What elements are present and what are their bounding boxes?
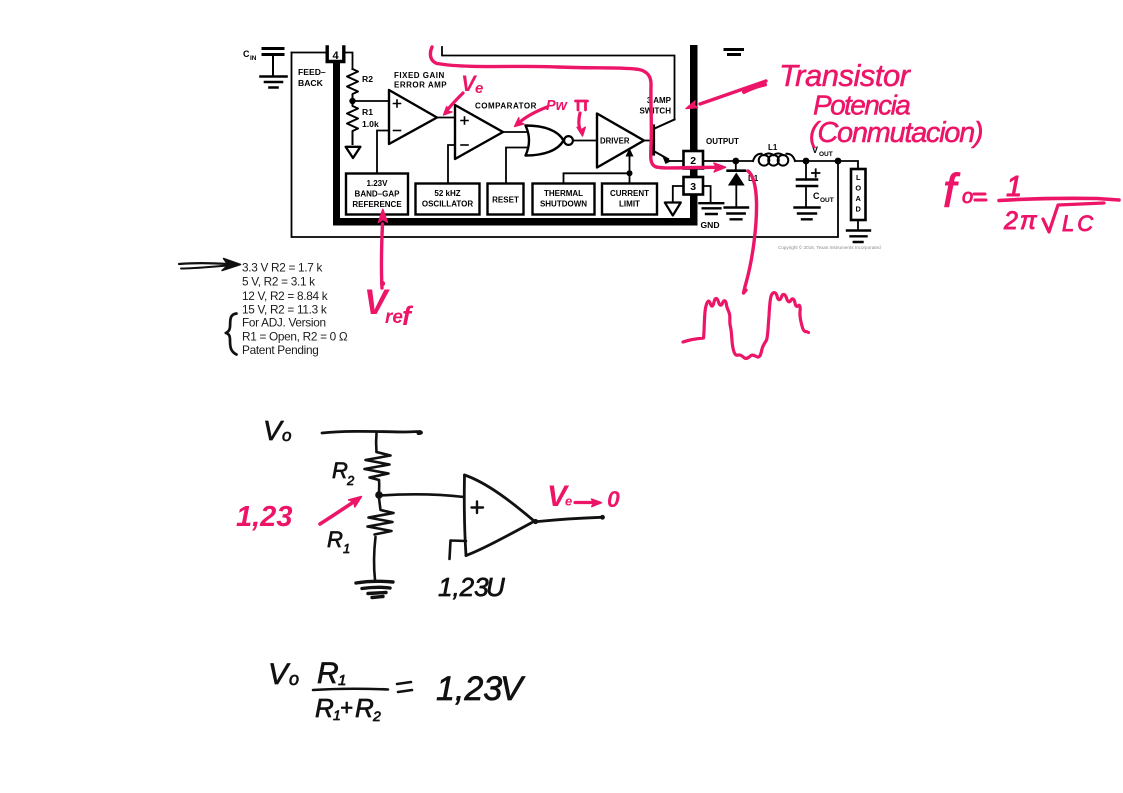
svg-text:BAND–GAP: BAND–GAP bbox=[355, 190, 401, 199]
svg-text:O: O bbox=[855, 184, 861, 193]
annotation PWM bbox=[515, 98, 588, 136]
annotation Ve -> 0 bbox=[547, 480, 620, 513]
equation: denominator R1+R2 bbox=[315, 693, 381, 724]
svg-text:e: e bbox=[475, 80, 483, 97]
svg-text:(Conmutacion): (Conmutacion) bbox=[809, 117, 982, 149]
svg-text:o: o bbox=[282, 426, 291, 445]
annotation arrow to 3.3V line bbox=[179, 259, 241, 271]
label VOUT bbox=[812, 145, 833, 158]
svg-text:Pw: Pw bbox=[546, 98, 569, 114]
hand circuit: op-amp triangle bbox=[464, 475, 538, 556]
junction dot (driver control) bbox=[627, 170, 633, 176]
svg-text:1,23: 1,23 bbox=[436, 670, 502, 708]
ground (input rail, partial) bbox=[725, 50, 743, 55]
hand circuit: op-amp + bbox=[472, 502, 484, 514]
svg-text:FEED–: FEED– bbox=[298, 67, 326, 77]
svg-text:Potencia: Potencia bbox=[813, 90, 910, 121]
svg-text:f: f bbox=[402, 301, 414, 331]
svg-text:1,23: 1,23 bbox=[236, 501, 292, 533]
block THERMAL SHUTDOWN bbox=[533, 184, 595, 215]
block RESET bbox=[488, 184, 524, 215]
svg-text:12 V, R2 = 8.84 k: 12 V, R2 = 8.84 k bbox=[242, 289, 328, 303]
op-amp U1 FIXED GAIN ERROR AMP bbox=[389, 90, 437, 144]
svg-text:CURRENT: CURRENT bbox=[610, 189, 649, 198]
svg-text:R: R bbox=[315, 693, 334, 723]
hand circuit: wire rail to R2 bbox=[375, 433, 378, 452]
annotation 1,23 pointer bbox=[236, 497, 362, 534]
wire oscillator to comparator inverting input bbox=[448, 145, 455, 183]
svg-text:V: V bbox=[268, 658, 291, 691]
svg-text:R2: R2 bbox=[362, 74, 373, 84]
hand circuit: wire R1 to ground bbox=[374, 537, 375, 580]
annotation fo formula bbox=[943, 164, 1119, 236]
svg-text:3: 3 bbox=[690, 181, 696, 193]
hand circuit: Vo rail wire bbox=[322, 431, 421, 433]
svg-text:15 V, R2 = 11.3 k: 15 V, R2 = 11.3 k bbox=[242, 303, 327, 317]
svg-text:1.0k: 1.0k bbox=[362, 119, 379, 129]
hand circuit: resistor R1 bbox=[368, 498, 394, 535]
svg-text:OUT: OUT bbox=[820, 197, 834, 204]
wire L1 to load bbox=[795, 161, 858, 169]
wire pin2 to node bbox=[703, 160, 753, 162]
svg-text:1.23V: 1.23V bbox=[367, 179, 389, 188]
wire comparator to nor gate input A bbox=[503, 131, 528, 133]
svg-text:R: R bbox=[332, 458, 348, 483]
svg-text:OUT: OUT bbox=[819, 151, 833, 158]
equation: result 1,23 V bbox=[436, 670, 526, 708]
ground (load) bbox=[847, 231, 870, 243]
hand circuit: reference input bracket bbox=[450, 541, 467, 560]
pin 2 (OUTPUT) bbox=[684, 151, 704, 169]
ground (CIN) bbox=[261, 77, 287, 88]
label FIXED GAIN ERROR AMP bbox=[394, 71, 447, 90]
load block bbox=[851, 169, 866, 220]
inductor L1 bbox=[753, 153, 795, 165]
svg-text:SHUTDOWN: SHUTDOWN bbox=[540, 200, 587, 209]
svg-text:V: V bbox=[500, 670, 526, 708]
svg-text:ERROR AMP: ERROR AMP bbox=[394, 81, 447, 90]
wire pin3 to ground arrow bbox=[673, 186, 684, 202]
label R1 / 1.0k bbox=[362, 107, 379, 129]
node feedback divider bbox=[349, 98, 355, 104]
svg-text:A: A bbox=[856, 194, 862, 203]
svg-text:GND: GND bbox=[701, 220, 720, 230]
svg-text:Transistor: Transistor bbox=[779, 58, 912, 93]
ground (COUT) bbox=[795, 208, 820, 220]
annotation Transistor Potencia (Conmutacion) bbox=[779, 58, 982, 149]
svg-text:U: U bbox=[486, 572, 505, 602]
wire nor to driver bbox=[573, 140, 596, 142]
svg-text:1: 1 bbox=[343, 541, 350, 556]
svg-text:L1: L1 bbox=[768, 143, 778, 152]
diode D1 bbox=[728, 161, 745, 206]
wire node to error amp + input bbox=[353, 100, 389, 102]
svg-text:e: e bbox=[565, 494, 572, 509]
svg-text:COMPARATOR: COMPARATOR bbox=[475, 102, 537, 111]
wire pin3 to GND symbol bbox=[703, 186, 711, 202]
wire feedback loop (left, bottom, right riser) bbox=[292, 53, 839, 238]
svg-text:C: C bbox=[243, 49, 250, 59]
transistor Q1 (3 AMP SWITCH) bbox=[644, 120, 684, 165]
svg-text:IN: IN bbox=[250, 55, 257, 62]
svg-text:OUTPUT: OUTPUT bbox=[706, 137, 739, 146]
svg-text:R: R bbox=[327, 527, 343, 552]
ground arrow (pin 3 left) bbox=[665, 203, 681, 216]
node diode junction bbox=[732, 158, 739, 165]
ground GND (signal) bbox=[699, 203, 723, 214]
svg-text:2: 2 bbox=[690, 155, 696, 167]
annotation Ve bbox=[444, 71, 484, 115]
svg-text:3.3 V R2 = 1.7 k: 3.3 V R2 = 1.7 k bbox=[242, 261, 323, 275]
wire CIN line to pin 4 bbox=[292, 52, 327, 54]
amplifier DRIVER bbox=[597, 114, 644, 168]
svg-text:SWITCH: SWITCH bbox=[639, 107, 671, 116]
svg-text:1: 1 bbox=[338, 672, 346, 689]
IC border (thick) bbox=[333, 45, 698, 226]
label FEED-BACK bbox=[298, 67, 326, 88]
svg-text:4: 4 bbox=[332, 50, 339, 62]
annotation squiggle from diode down bbox=[744, 171, 757, 293]
svg-text:For ADJ. Version: For ADJ. Version bbox=[242, 316, 326, 330]
block CURRENT LIMIT bbox=[602, 184, 657, 215]
hand circuit: wire node to op-amp bbox=[380, 494, 464, 497]
annotation Vref label bbox=[364, 281, 414, 331]
equation: numerator R1 bbox=[317, 657, 346, 690]
svg-text:o: o bbox=[289, 669, 299, 689]
svg-text:DRIVER: DRIVER bbox=[600, 137, 630, 146]
hand circuit: label R1 bbox=[327, 527, 350, 556]
svg-text:R: R bbox=[317, 657, 339, 690]
wire thermal shutdown to junction bbox=[564, 173, 630, 183]
svg-text:52 kHZ: 52 kHZ bbox=[434, 189, 460, 198]
wire reset to nor gate input B bbox=[506, 148, 529, 184]
svg-text:C: C bbox=[813, 191, 820, 201]
equation: fraction bar bbox=[313, 689, 388, 690]
hand circuit: wire R2 to node bbox=[378, 481, 381, 494]
annotation long pink loop wire to switch node bbox=[430, 47, 716, 168]
wire band-gap to error amp inverting input bbox=[377, 131, 389, 174]
svg-text:2π: 2π bbox=[1003, 207, 1039, 235]
svg-text:V: V bbox=[263, 415, 284, 446]
wire arrow into driver bbox=[626, 148, 634, 173]
equation: equals sign bbox=[397, 682, 412, 692]
block 52 kHZ OSCILLATOR bbox=[416, 184, 480, 215]
equation: Vo bbox=[268, 658, 299, 691]
wire load to ground bbox=[857, 220, 859, 229]
annotation Vref arrow bbox=[379, 210, 388, 289]
svg-text:D: D bbox=[856, 205, 862, 214]
svg-text:RESET: RESET bbox=[492, 196, 519, 205]
svg-text:Copyright © 2016, Texas Instru: Copyright © 2016, Texas Instruments Inco… bbox=[778, 244, 881, 250]
svg-text:f: f bbox=[943, 164, 961, 217]
svg-text:R1: R1 bbox=[362, 107, 373, 117]
svg-text:L: L bbox=[856, 173, 861, 182]
op-amp U2 COMPARATOR bbox=[455, 105, 503, 159]
hand circuit: label Vo bbox=[263, 415, 291, 446]
hand circuit: node dot bbox=[375, 491, 383, 499]
svg-text:REFERENCE: REFERENCE bbox=[352, 200, 402, 209]
capacitor COUT bbox=[797, 161, 820, 206]
hand circuit: label 1,23 V bbox=[438, 572, 505, 602]
wire collector to top rail bbox=[442, 47, 675, 120]
resistor R2 bbox=[347, 69, 358, 98]
pin 3 (GND) bbox=[684, 177, 704, 195]
svg-text:FIXED GAIN: FIXED GAIN bbox=[394, 71, 445, 80]
hand circuit: label R2 bbox=[332, 458, 355, 488]
label COUT bbox=[813, 191, 834, 204]
annotation brace for ADJ lines bbox=[226, 314, 237, 355]
nor gate U3 bbox=[526, 126, 573, 156]
hand circuit: output wire bbox=[538, 517, 601, 521]
svg-text:0: 0 bbox=[607, 486, 620, 512]
svg-text:o: o bbox=[962, 186, 973, 208]
wire current limit to junction bbox=[629, 173, 631, 183]
svg-text:+: + bbox=[340, 695, 353, 720]
node VOUT (feedback tap) bbox=[835, 158, 842, 165]
svg-text:2: 2 bbox=[346, 473, 355, 488]
svg-text:R1 = Open, R2 = 0 Ω: R1 = Open, R2 = 0 Ω bbox=[242, 330, 348, 344]
svg-text:LC: LC bbox=[1062, 211, 1096, 236]
hand circuit: ground scribble bbox=[356, 581, 393, 597]
svg-text:BACK: BACK bbox=[298, 78, 324, 88]
svg-text:OSCILLATOR: OSCILLATOR bbox=[422, 200, 473, 209]
svg-text:LIMIT: LIMIT bbox=[619, 200, 640, 209]
svg-text:5 V, R2 = 3.1 k: 5 V, R2 = 3.1 k bbox=[242, 275, 315, 289]
label CIN bbox=[243, 49, 257, 62]
wire pin4 to R2 bbox=[344, 53, 353, 70]
ground (diode) bbox=[725, 208, 748, 220]
label 3 AMP SWITCH bbox=[639, 96, 671, 116]
hand circuit: resistor R2 bbox=[365, 452, 391, 480]
annotation waveform sketch bbox=[683, 293, 809, 359]
wire error amp output to comparator + input bbox=[437, 117, 455, 119]
svg-text:R: R bbox=[355, 693, 374, 723]
svg-text:Patent Pending: Patent Pending bbox=[242, 343, 318, 357]
svg-text:THERMAL: THERMAL bbox=[544, 189, 583, 198]
block 1.23V BAND-GAP REFERENCE bbox=[346, 174, 408, 215]
svg-text:re: re bbox=[385, 307, 403, 328]
node COUT bbox=[803, 158, 810, 165]
svg-text:2: 2 bbox=[372, 708, 381, 724]
annotation leader arrow to switch bbox=[686, 81, 766, 109]
resistor R1 1.0k bbox=[347, 101, 358, 144]
svg-text:1,23: 1,23 bbox=[438, 572, 489, 602]
pin 4 (FEEDBACK) bbox=[327, 47, 344, 62]
ground arrow below R1 bbox=[346, 147, 361, 158]
capacitor CIN bbox=[263, 49, 283, 76]
